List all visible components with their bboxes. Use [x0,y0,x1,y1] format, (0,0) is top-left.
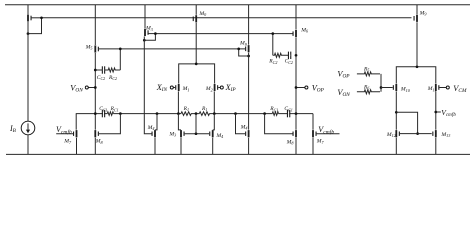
node V_ON on bus [94,112,97,115]
transistor M8b (second-stage NMOS, V_OP side) [293,130,297,137]
wire CMFB tail bar [396,67,436,84]
wire bias bus (gate of M11 to gate of M9) [42,17,412,19]
node CM gate line midpoint [195,132,198,135]
wire V_OP vertical (drain M6 to drain M8b) [295,38,297,130]
wire V_cmfb stub to gate M7 [56,133,73,135]
wire gate-drain tie of M9 [239,49,249,56]
transistor M8 (second-stage NMOS, V_ON side) [94,130,99,137]
node C_C2 tap on V_OP line [295,54,298,57]
wire gate M3 [148,33,155,35]
transistor M10s (bias sink under M9) [245,130,249,137]
wire drain M1 down to bus [177,92,179,114]
svg-text:M4: M4 [215,133,223,139]
wire drain M7b up to bus right end [312,114,314,130]
svg-text:M3: M3 [168,131,176,137]
svg-text:M13: M13 [440,132,450,138]
node gate node right on bus [263,112,266,115]
transistor M9 (diode-connected PMOS for M5 gate line) [245,45,249,52]
transistor M0 (first-stage tail PMOS) [193,15,197,22]
svg-text:M8: M8 [286,139,295,145]
wire gate line M12-M13 [400,133,432,135]
svg-text:M8: M8 [95,139,104,145]
wire gate M8b to right gate node riser [265,114,293,134]
node CMFB tail [416,65,419,68]
capacitor C_C2 right [288,52,291,59]
wire gate M3b to midpoint line [185,133,210,135]
svg-text:M9: M9 [239,41,248,47]
node gate node left on bus [119,112,122,115]
wire V_ON vertical (drain M5 to drain M8) [94,53,96,130]
svg-text:RC1: RC1 [110,106,119,112]
node V_OP terminal [305,86,308,89]
capacitor C_C2 left [102,66,105,73]
svg-text:CC2: CC2 [97,75,105,81]
node V_ON terminal [85,86,88,89]
wire gate-drain tie of M3 [144,34,155,41]
node gate/drain tie M11 [40,16,43,19]
wire drain M11 down to IB [27,22,29,121]
wire source M3b to VSS [180,138,182,155]
wire gate M1 to X_IN terminal [173,87,175,89]
svg-text:CC1: CC1 [99,106,107,112]
wire source M9b to VDD [416,5,418,15]
wire drain M7 up to bus left end [75,114,77,130]
wire V_OP terminal stub [296,87,305,89]
node M12/M13 gate tie [416,132,419,135]
transistor M2 (input pair right) [214,84,219,91]
node V_OP stub tee [295,86,298,89]
svg-text:R6: R6 [363,84,369,90]
transistor M1 (input pair left) [175,84,179,91]
node CMFB sense [380,86,383,89]
wire source M10 down to M12 [395,92,397,130]
wire first-stage tail bar [179,64,215,84]
transistor M11 (top-left diode-connected PMOS) [27,5,41,22]
node gate M10s riser on bus [234,112,237,115]
svg-text:R1: R1 [201,106,207,112]
svg-text:M3: M3 [145,26,153,32]
resistor R_C2 right [273,53,289,57]
svg-text:RC1: RC1 [269,106,278,112]
wire source M12 to VSS [395,138,397,155]
transistor M10 (CMFB pair left) [393,84,397,91]
node C_C2 tap on V_ON line [94,69,97,72]
wire source M5 to VDD [94,5,96,45]
transistor M7b (right CMFB load, V_cmfb gate) [312,130,317,137]
wire VSS rail [6,153,470,155]
wire drain M2 down to bus [213,92,215,114]
svg-text:M5: M5 [85,44,93,50]
wire gate M10s riser to bus [236,114,246,134]
wire V_cmfb output stub [436,111,441,113]
wire drain M4 bracket up to bus [155,114,157,130]
current source IB [21,121,35,135]
transistor M6 (second-stage PMOS, V_OP side) [293,30,297,37]
svg-text:M10: M10 [400,87,411,93]
wire source M3 to VDD [144,5,146,29]
resistor R_C1 right (bus) [272,112,278,116]
svg-text:M11: M11 [427,86,437,92]
wire source M10s to VSS [248,138,250,155]
wire IB to VSS [27,135,29,155]
wire gate line M3-M6 [155,33,292,35]
wire gate M2 to X_IP terminal [218,87,220,89]
svg-text:M7: M7 [63,139,72,145]
resistor R_C2 left [95,68,120,72]
node drain M2 on bus [213,112,216,115]
svg-text:RC2: RC2 [108,75,117,81]
transistor M9b (far-right PMOS current source for CMFB pair) [414,15,418,22]
wire drain M0 to tail node [195,23,197,64]
capacitor C_C1 left (bus) [102,110,105,117]
wire R1 midpoint riser [195,114,197,134]
svg-text:M4: M4 [147,125,155,131]
transistor M7 (left CMFB load, V_cmfb gate) [73,130,77,137]
node drain M3 [143,39,146,42]
node drain tie M9 [247,55,250,58]
node R_C2 corner on gate line [119,48,122,51]
node V_ON stub tee [94,86,97,89]
wire R_C2 corner up to M5 gate line [119,49,121,70]
svg-text:M4: M4 [240,124,248,130]
transistor M4b (first-stage CM load right) [209,130,213,137]
capacitor C_C1 right (bus) [287,110,290,117]
wire mid bus [76,113,313,115]
wire gate M8 to left gate node riser [99,114,121,134]
node M10 source branch [395,111,398,114]
wire drain M4b bracket up to bus [213,114,215,130]
svg-text:R1: R1 [183,106,189,112]
wire drain M3b bracket up to bus [178,114,181,130]
wire source M0 to VDD [195,5,197,15]
transistor M12 (CMFB tail mirror left) [395,130,400,137]
resistor R6 [357,90,380,94]
transistor M3b (first-stage CM load left) [180,130,185,137]
wire gate M10 [381,87,393,89]
svg-text:CC1: CC1 [284,106,292,112]
wire VDD rail [5,4,470,6]
svg-text:M0: M0 [198,11,207,17]
svg-text:RC2: RC2 [268,59,277,65]
node drain M1 on bus [177,112,180,115]
wire source M4 to VSS [154,138,156,155]
transistor M3 (diode-connected PMOS mirror) [144,29,149,36]
svg-text:M1: M1 [182,86,190,92]
wire drain M3 down to gate M4 [144,37,152,134]
node X_IN terminal [170,86,173,89]
wire gate-drain tie of M11 [28,18,42,34]
resistor R1 right [199,112,209,116]
wire drain M9b to CMFB tail [416,22,418,67]
svg-text:M2: M2 [205,86,213,92]
wire source M8b to VSS [295,138,297,155]
resistor R5 [357,72,380,76]
wire branch to M12/M13 gates [396,112,417,133]
wire CMFB sense join [380,74,382,92]
transistor M11b (CMFB pair right) [435,84,440,91]
node R1-R1 midpoint [195,112,198,115]
node X_IP terminal [220,86,223,89]
resistor R_C1 left (bus) [107,112,113,116]
wire gate line M5-M9 [99,48,245,50]
node drain M4 on bus [156,112,159,115]
wire RC2 right corner down from gate line [272,34,274,56]
node RC2 corner on gate line right [271,32,274,35]
wire source M13 to VSS [435,138,437,155]
wire source M9 to VDD [248,5,250,45]
wire source M8 to VSS [94,138,96,155]
wire source M11b down to M13 [435,92,437,130]
svg-text:M6: M6 [300,27,309,33]
node tail [195,63,198,66]
wire gate M11b to V_CM terminal [439,87,446,89]
wire drain M9 down to drain M10 [248,53,250,130]
transistor M13 (CMFB tail mirror right) [432,130,436,137]
transistor M5 (second-stage PMOS, V_ON side) [94,45,99,52]
node V_OP on bus [295,112,298,115]
svg-text:M7: M7 [316,139,325,145]
node gate tie M3 [154,32,157,35]
wire source M4b to VSS [212,138,214,155]
node V_CM terminal [446,86,449,89]
wire source M7 to VSS [76,138,78,155]
wire source M7b to VSS [312,138,314,155]
svg-text:M12: M12 [386,132,396,138]
wire gate M7b stub [317,133,340,135]
svg-text:CC2: CC2 [285,59,293,65]
wire V_ON terminal stub [88,87,95,89]
node gate M9 [237,48,240,51]
transistor M4 (NMOS mirror with M3) [152,130,156,137]
node V_cmfb output [434,111,437,114]
svg-text:R5: R5 [363,66,369,72]
wire source M6 to VDD [295,5,297,30]
resistor R1 left [181,112,191,116]
node drain M11 [27,32,30,35]
svg-text:M9: M9 [419,10,428,16]
